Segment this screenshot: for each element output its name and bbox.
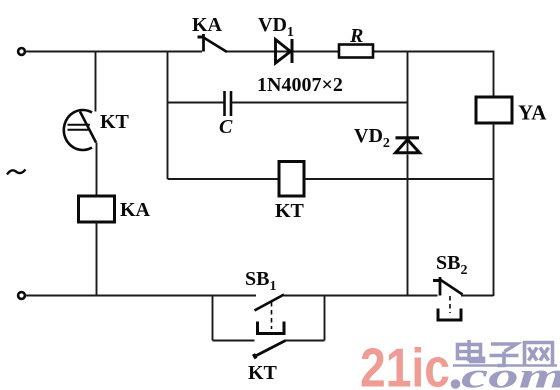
- diode VD2: [396, 138, 420, 153]
- wire parallel branch left: [213, 340, 255, 342]
- wire VD2 branch lower: [407, 155, 409, 296]
- watermark com: [461, 355, 560, 390]
- svg-text:KA: KA: [120, 199, 151, 221]
- svg-text:KT: KT: [248, 362, 278, 384]
- wire SB2 to right rail: [461, 295, 494, 297]
- svg-text:1N4007×2: 1N4007×2: [257, 74, 343, 96]
- pushbutton SB1: [255, 295, 285, 334]
- svg-text:com: com: [461, 355, 560, 390]
- wire VD2 branch upper: [407, 52, 409, 154]
- wire top rail left: [25, 51, 202, 53]
- svg-text:C: C: [219, 116, 233, 138]
- relay coil KA: [79, 196, 115, 222]
- wire KT coil branch right: [304, 178, 494, 180]
- wire bottom rail middle: [284, 295, 438, 297]
- wire capacitor branch right: [232, 102, 408, 104]
- relay coil KT: [279, 162, 304, 197]
- wire left rail upper: [95, 52, 97, 112]
- terminal bottom-left: [18, 292, 25, 299]
- pushbutton SB2: [433, 277, 463, 320]
- terminal top-left: [18, 48, 25, 55]
- wire right rail lower: [493, 123, 495, 296]
- wire bottom rail left: [25, 295, 256, 297]
- svg-text:KA: KA: [192, 14, 223, 36]
- wire VD1 to R: [291, 51, 339, 53]
- contact KT delayed: [64, 110, 96, 150]
- wire R to right rail: [373, 51, 495, 53]
- wire SB1 box right: [324, 296, 326, 341]
- watermark 21ic logo: [360, 337, 450, 390]
- capacitor C: [225, 91, 232, 116]
- wire KT contact to KA coil: [96, 143, 98, 197]
- svg-text:YA: YA: [518, 101, 547, 125]
- svg-text:21ic: 21ic: [360, 337, 450, 390]
- svg-text:KT: KT: [275, 200, 305, 222]
- contact KA: [198, 34, 228, 52]
- AC symbol ~: [7, 170, 26, 175]
- diode VD1: [276, 39, 293, 63]
- wire right rail upper: [493, 52, 495, 98]
- svg-text:R: R: [349, 25, 363, 47]
- wire SB1 box left: [212, 296, 214, 341]
- resistor R: [339, 45, 373, 58]
- watermark char 子: [490, 344, 519, 366]
- watermark dot: [451, 379, 461, 389]
- wire capacitor branch left: [168, 102, 225, 104]
- svg-text:KT: KT: [100, 111, 130, 133]
- watermark char 网: [525, 343, 553, 367]
- wire KA coil to bottom rail: [96, 222, 98, 296]
- contact KT bottom: [254, 341, 286, 359]
- wire KT coil branch left: [168, 178, 280, 180]
- wire branch vertical x167: [167, 52, 169, 180]
- watermark char 电: [458, 340, 484, 362]
- watermark underline: [453, 364, 557, 367]
- wire KA contact to VD1: [227, 51, 291, 53]
- wire parallel branch right: [285, 340, 325, 342]
- relay coil YA: [476, 97, 512, 123]
